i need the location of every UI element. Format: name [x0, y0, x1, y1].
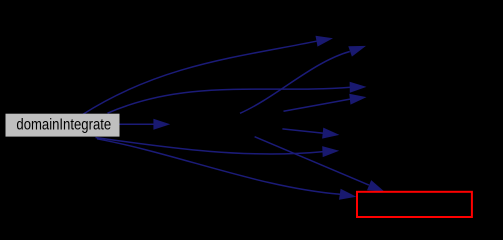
arrowhead C	[350, 82, 367, 93]
edge g: domainIntegrate -> lower target	[96, 138, 324, 155]
edge a: domainIntegrate -> top target	[83, 41, 317, 114]
edge b: domainIntegrate -> mid target	[108, 87, 351, 113]
arrowhead F	[322, 128, 339, 139]
edge e: hidden node -> right target	[284, 99, 351, 111]
arrowhead H	[367, 180, 385, 192]
arrowhead A	[316, 36, 334, 47]
arrowhead B	[348, 46, 366, 57]
edge i: domainIntegrate -> red node (long curve)	[97, 139, 340, 195]
edge h: hidden node -> red node (diagonal)	[255, 137, 369, 185]
truncated node: red rectangle	[357, 192, 472, 217]
svg-text:domainIntegrate: domainIntegrate	[16, 116, 111, 133]
arrowhead G	[322, 146, 339, 157]
node domainIntegrate	[6, 114, 120, 137]
edge f: hidden node -> lower-right target	[282, 129, 323, 133]
arrowhead E	[153, 119, 170, 130]
arrowhead I	[339, 189, 356, 200]
arrowhead D	[349, 94, 366, 105]
edge c: domainIntegrate -> hidden node (short arrow)	[120, 123, 154, 125]
edge d: hidden node -> upper-right target	[240, 52, 350, 114]
